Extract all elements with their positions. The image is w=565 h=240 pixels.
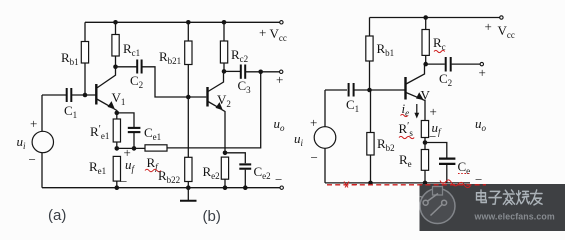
capacitor Ce2 xyxy=(239,164,251,168)
wire junction to Ce top xyxy=(425,143,447,158)
wire collector V2 to C3 xyxy=(224,70,240,72)
wire R_b22 bottom to rail xyxy=(187,182,189,188)
capacitor C2 (left circuit) xyxy=(137,60,141,74)
svg-text:−: − xyxy=(29,152,36,167)
capacitor Ce xyxy=(439,159,455,164)
wire R_c2 top xyxy=(223,22,225,41)
node Ce2/rail xyxy=(243,185,248,190)
svg-text:+: + xyxy=(430,104,437,119)
arrow current direction (down) xyxy=(414,104,419,119)
red wavy underline under i xyxy=(401,114,408,116)
resistor Rb1 xyxy=(81,42,88,64)
wire C3 to output terminal xyxy=(246,71,280,73)
node R'e1/Re1/feedback junction xyxy=(115,146,120,151)
svg-text:−: − xyxy=(275,172,282,187)
svg-text:+: + xyxy=(310,115,317,130)
svg-text:V: V xyxy=(421,88,431,103)
resistor Re1 xyxy=(113,156,120,181)
resistor R'e1 xyxy=(113,119,120,142)
resistor Rb21 xyxy=(185,41,192,65)
red wavy underline under Rc xyxy=(434,50,445,52)
watermark box xyxy=(420,184,565,231)
wire Ce2 bottom to rail xyxy=(244,170,246,188)
node base/Rb1 junction (right) xyxy=(367,88,372,93)
wire Rb2 bottom xyxy=(370,155,372,183)
wire Rc top xyxy=(425,18,427,30)
wire input to C1 xyxy=(42,94,66,96)
svg-text:(a): (a) xyxy=(48,207,66,224)
terminal bottom right (left circuit, open circle) xyxy=(280,186,283,189)
wire bottom rail (left circuit) xyxy=(42,187,280,189)
wire Rb2 top xyxy=(370,90,372,133)
red wavy underline under Rf xyxy=(145,169,161,172)
node collector V1 xyxy=(113,65,118,70)
transistor V1 xyxy=(96,67,117,113)
node collector V1 / C2 wire xyxy=(116,66,137,68)
watermark logo disc xyxy=(420,187,455,224)
svg-text:+: + xyxy=(259,25,266,40)
node emitter V2 xyxy=(223,151,228,156)
wire R_b22 top (from base node V2) xyxy=(187,97,189,157)
wire R_c1 top xyxy=(115,22,117,34)
red dashed emphasis line along right bottom rail xyxy=(327,180,486,188)
red wavy underline under R's xyxy=(399,136,414,138)
wire R_b1 bottom to base node (right) xyxy=(369,61,371,90)
capacitor C1 (right circuit) xyxy=(349,83,354,97)
label +Vcc (right) xyxy=(485,19,515,40)
resistor Rb22 xyxy=(185,157,192,181)
resistor Rc xyxy=(422,30,429,56)
watermark title 电子发烧友 (vector strokes) xyxy=(477,190,543,205)
svg-text:+: + xyxy=(30,116,37,131)
wire top supply rail (left circuit) xyxy=(85,21,280,23)
wire emitter node to R'e1 xyxy=(116,113,118,119)
svg-text:+: + xyxy=(485,19,492,34)
svg-text:−: − xyxy=(429,129,436,144)
capacitor Ce1 xyxy=(128,128,141,132)
wire R_b1 top xyxy=(84,22,86,41)
wire emitter node to Ce1 top xyxy=(117,113,134,127)
wire top supply rail (right circuit) xyxy=(370,17,500,19)
wire emitter node V2 to Ce2 xyxy=(225,153,245,164)
svg-text:(b): (b) xyxy=(203,208,221,225)
capacitor C3 xyxy=(241,65,245,79)
wire Ce bottom to rail xyxy=(446,165,448,183)
wire Re2 bottom to rail xyxy=(224,179,226,188)
wire input to C1 (right) xyxy=(325,89,347,91)
wire Rf to output node (feedback wire) xyxy=(167,72,261,148)
wire C1 to base (right) xyxy=(354,89,404,91)
resistor Re xyxy=(421,150,428,171)
wire Re bottom to rail xyxy=(424,170,426,183)
wire R_b21 bottom to base node V2 xyxy=(187,65,189,98)
svg-text:−: − xyxy=(311,150,318,165)
node collector V2 xyxy=(222,69,227,74)
wire bottom rail (right circuit) xyxy=(325,182,470,184)
node Ce1/feedback junction xyxy=(132,146,137,151)
wire feedback node to Rf xyxy=(117,147,145,149)
wire C1 to V1 base xyxy=(72,94,96,96)
capacitor C1 (left circuit) xyxy=(67,88,72,102)
node emitter V1 xyxy=(115,111,120,116)
svg-text:www.elecfans.com: www.elecfans.com xyxy=(474,212,555,222)
resistor R's xyxy=(421,121,428,138)
node output/feedback junction xyxy=(258,70,263,75)
resistor Re2 xyxy=(221,157,228,179)
transistor V (right circuit) xyxy=(406,64,426,120)
ground symbol xyxy=(180,188,197,201)
svg-text:−: − xyxy=(120,174,127,189)
svg-text:+: + xyxy=(276,72,283,87)
terminal +Vcc (left circuit, open circle) xyxy=(280,21,283,24)
capacitor C2 (right circuit) xyxy=(446,57,451,72)
wire R_c2 bottom to collector node V2 xyxy=(223,63,225,71)
resistor Rb1 (right) xyxy=(366,36,373,61)
node base V1 / R_b1 junction xyxy=(83,93,88,98)
node Rb2/rail (right) xyxy=(368,181,373,186)
wire R_c1 bottom to collector node xyxy=(115,56,117,67)
wire R's bottom to Re top xyxy=(424,138,426,150)
wire R_b21 top xyxy=(187,22,189,41)
node collector V (right) xyxy=(423,62,428,67)
wire R_b1 top (right) xyxy=(369,18,371,37)
terminal uo (left circuit, open circle) xyxy=(280,70,283,73)
node R's/Re junction xyxy=(423,140,428,145)
svg-text:+: + xyxy=(479,65,486,80)
red dotted underline under Ce xyxy=(458,173,470,175)
source ui (right circuit) xyxy=(314,90,336,183)
transistor V2 xyxy=(208,71,226,152)
wire Rc bottom to collector node (right) xyxy=(425,55,427,64)
node base V2 junction xyxy=(186,95,191,100)
wire Ce1 bottom to feedback node xyxy=(133,133,135,148)
resistor Rc1 xyxy=(112,35,119,57)
wire R_b1 bottom to base node xyxy=(84,63,86,95)
node rail/Rc junction (right) xyxy=(423,15,428,20)
node Rb22/rail/ground xyxy=(186,185,191,190)
label +Vcc (left) xyxy=(259,25,287,43)
wire collector to C2 (right) xyxy=(426,63,445,65)
node rail/R_c1 junction xyxy=(113,20,118,25)
terminal output (right circuit, open circle) xyxy=(480,62,483,65)
source ui (left circuit) xyxy=(32,95,53,188)
node Re1/rail xyxy=(115,185,120,190)
resistor Rc2 xyxy=(220,41,227,63)
node Re2/rail xyxy=(223,185,228,190)
wire Re1 bottom to ground rail xyxy=(116,181,118,188)
node rail/R_b21 junction xyxy=(186,20,191,25)
resistor Rf (horizontal) xyxy=(145,145,167,151)
wire C2 to output terminal (right) xyxy=(452,63,481,65)
wire C2 to V2 base xyxy=(142,67,206,97)
node Re/rail (right) xyxy=(423,181,428,186)
resistor Rb2 xyxy=(367,133,374,156)
node rail/R_c2 junction xyxy=(222,20,227,25)
terminal +Vcc (right circuit, open circle) xyxy=(500,16,503,19)
wire R'e1 bottom to feedback node xyxy=(116,142,118,148)
